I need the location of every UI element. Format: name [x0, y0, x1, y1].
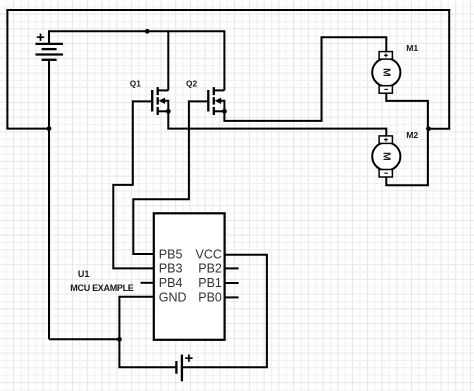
svg-text:GND: GND	[159, 291, 187, 305]
wire right rail to motors common junction	[429, 128, 451, 130]
wire Q1 drain to positive rail	[167, 30, 169, 90]
svg-text:PB3: PB3	[159, 262, 183, 276]
svg-text:Q2: Q2	[186, 79, 197, 89]
pin stub PB1	[225, 282, 239, 284]
svg-text:PB1: PB1	[198, 276, 222, 290]
wire Q1 source to motor M2 plus	[168, 111, 386, 136]
svg-text:PB2: PB2	[198, 262, 222, 276]
pin stub PB2	[225, 267, 239, 269]
svg-text:M1: M1	[406, 43, 418, 53]
svg-text:Q1: Q1	[130, 79, 141, 89]
motor M2	[372, 136, 400, 177]
battery V2	[176, 355, 192, 382]
battery V1	[36, 34, 64, 60]
wire motor M1 minus to common junction	[386, 93, 428, 130]
wire MCU GND pin to battery2 negative	[119, 297, 176, 367]
junction node Q1 source	[166, 109, 171, 114]
wire negative rail left	[6, 9, 8, 129]
junction node Q2 source	[222, 109, 227, 114]
svg-text:MCU EXAMPLE: MCU EXAMPLE	[70, 283, 133, 293]
transistor Q2	[189, 87, 225, 115]
svg-text:VCC: VCC	[195, 247, 221, 261]
motor M1	[372, 52, 400, 94]
wire left rail to battery1 negative junction	[6, 128, 49, 130]
wire motor M2 minus to common junction	[386, 128, 428, 185]
wire battery1 positive lead	[48, 31, 50, 44]
junction node battery1 negative / left rail	[47, 126, 52, 131]
wire negative rail right	[448, 9, 450, 129]
wire negative rail top	[6, 9, 450, 11]
pin stub PB0	[225, 296, 239, 298]
wire Q2 source to motor M1 plus	[224, 37, 386, 121]
wire Q1 gate to MCU pin PB3	[113, 100, 154, 268]
junction node battery1 negative / MCU GND	[117, 337, 122, 342]
svg-text:U1: U1	[78, 269, 90, 279]
svg-text:M2: M2	[406, 130, 418, 140]
svg-text:PB5: PB5	[159, 247, 183, 261]
wire battery1 negative to GND junction	[49, 338, 119, 340]
battery V2 plus mark	[185, 355, 192, 362]
wire battery1 negative lead down left side	[48, 60, 50, 340]
svg-text:M: M	[380, 68, 392, 77]
svg-text:PB4: PB4	[159, 276, 183, 290]
wire battery2 positive to MCU VCC pin	[182, 255, 267, 367]
junction dot on positive rail	[145, 29, 150, 34]
op-amp U1 MCU block	[154, 213, 225, 339]
svg-text:M: M	[380, 152, 392, 161]
pin stub PB4	[141, 282, 154, 284]
wire positive rail to MOSFET drains	[48, 30, 224, 32]
junction node motors common / right rail	[426, 126, 431, 131]
svg-text:PB0: PB0	[198, 291, 222, 305]
wire Q2 drain to positive rail	[223, 30, 225, 90]
transistor Q1	[133, 87, 169, 115]
battery V1 plus mark	[37, 34, 44, 41]
wire Q2 gate to MCU pin PB5	[133, 100, 189, 254]
